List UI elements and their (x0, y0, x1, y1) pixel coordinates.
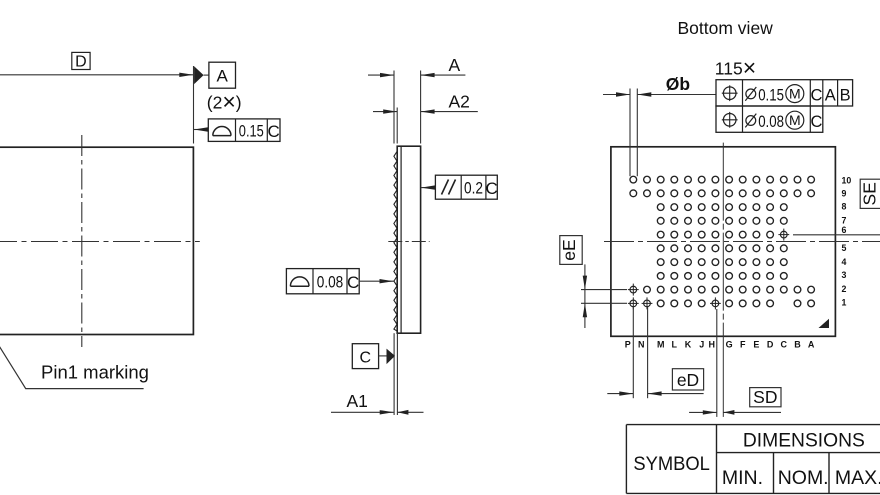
feature control frame: position 0.08 M C (716, 106, 823, 132)
dimension D extension line (193, 66, 195, 144)
bottom view horizontal centerline (604, 241, 880, 243)
svg-text:MAX.: MAX. (835, 467, 880, 489)
ball C6 position target (778, 229, 789, 241)
svg-text:H: H (709, 339, 716, 349)
svg-text:4: 4 (842, 257, 847, 267)
svg-text:P: P (625, 339, 631, 349)
dimension eD label box (672, 369, 703, 390)
svg-text:9: 9 (842, 189, 847, 199)
svg-text:A2: A2 (449, 91, 470, 111)
ball N1 position target (642, 297, 653, 309)
svg-text:A: A (808, 339, 815, 349)
ball row 4 (657, 259, 787, 266)
svg-text:6: 6 (842, 225, 847, 235)
pin 1 corner chamfer mark (819, 319, 830, 328)
dimensions table (626, 425, 880, 494)
dimension A2 line (373, 111, 397, 113)
seating plane lines (393, 333, 395, 415)
svg-text:MIN.: MIN. (722, 467, 763, 489)
svg-text:D: D (767, 339, 774, 349)
ball P2 position target (628, 284, 639, 296)
svg-text:C: C (347, 273, 359, 292)
svg-text:C: C (360, 349, 372, 366)
feature control frame: parallelism 0.2 C (435, 175, 497, 199)
dimension Ob extension lines (629, 89, 631, 177)
svg-text:DIMENSIONS: DIMENSIONS (743, 429, 865, 451)
feature control frame: position 0.15 M C A B (716, 80, 853, 106)
svg-text:0.15: 0.15 (758, 85, 784, 104)
dimension eE label box (560, 236, 582, 265)
svg-text:10: 10 (842, 175, 852, 185)
svg-text:C: C (267, 122, 279, 141)
extension lines (393, 71, 395, 144)
svg-text:A1: A1 (347, 391, 368, 411)
svg-text:N: N (638, 339, 645, 349)
row 6 reference line to SE (793, 234, 880, 236)
dimension eD extension lines (632, 307, 634, 398)
svg-text:D: D (75, 53, 87, 70)
svg-text:5: 5 (842, 243, 847, 253)
side view package body (397, 146, 420, 333)
svg-text:115×: 115× (715, 54, 756, 80)
dimension SD label box (750, 388, 781, 407)
side view substrate line (400, 146, 402, 333)
ball row 5 (657, 245, 787, 252)
datum C box (352, 344, 378, 369)
svg-text:F: F (740, 339, 746, 349)
svg-text:G: G (726, 339, 733, 349)
svg-text:C: C (781, 339, 788, 349)
datum A box (209, 62, 236, 88)
ball row 8 (657, 204, 787, 211)
svg-text:eD: eD (677, 370, 699, 390)
leader from frame to extension line (194, 129, 208, 131)
svg-text:B: B (840, 86, 851, 104)
datum A triangle (194, 66, 204, 84)
feature control frame: profile 0.08 C (286, 269, 359, 294)
svg-text:0.15: 0.15 (239, 122, 264, 140)
dimension A line (368, 74, 394, 76)
svg-text:A: A (217, 66, 229, 85)
datum C triangle (387, 349, 396, 365)
dimension eE lines (584, 264, 586, 328)
svg-text:C: C (811, 86, 823, 104)
svg-text:2: 2 (842, 284, 847, 294)
svg-text:8: 8 (842, 202, 847, 212)
ball P1 position target (628, 297, 639, 309)
feature control frame: profile 0.15 C (208, 119, 280, 141)
svg-text:eE: eE (559, 239, 579, 260)
svg-text:SE: SE (859, 182, 879, 205)
side view centerline (388, 241, 429, 243)
svg-text:A: A (449, 55, 461, 75)
dimension D line (0, 74, 193, 76)
svg-text:J: J (699, 339, 704, 349)
top view package body outline (0, 147, 193, 334)
ball row 9 (630, 190, 815, 197)
svg-text:1: 1 (842, 297, 847, 307)
ball row 2 (644, 286, 815, 293)
svg-text:M: M (789, 112, 801, 128)
dimension eD line (607, 393, 633, 395)
svg-text:E: E (753, 339, 759, 349)
dimension SE label box (860, 179, 880, 208)
side view solder balls profile (394, 152, 397, 332)
dimension D label box (72, 52, 90, 69)
ball row 3 (657, 273, 787, 280)
leader to body (421, 187, 435, 189)
svg-text:C: C (811, 113, 823, 131)
top view vertical centerline (81, 135, 83, 347)
svg-text:A: A (825, 86, 836, 104)
svg-text:Pin1 marking: Pin1 marking (41, 362, 149, 383)
svg-text:M: M (657, 339, 665, 349)
bottom view package outline (611, 147, 836, 336)
ball row 1 (657, 300, 814, 307)
svg-text:Øb: Øb (666, 74, 690, 94)
dimension SD line (689, 411, 717, 413)
column letter labels (625, 339, 815, 349)
ball row 10 (630, 176, 815, 183)
svg-text:Bottom view: Bottom view (678, 18, 774, 38)
dimension SD extension line (716, 309, 718, 417)
svg-text:3: 3 (842, 270, 847, 280)
top view horizontal centerline (0, 241, 200, 243)
svg-text:M: M (789, 86, 801, 102)
ball H1 position target (710, 297, 721, 309)
leader to seating plane (359, 280, 393, 282)
svg-text:0.2: 0.2 (464, 179, 483, 197)
ball row 7 (657, 217, 787, 224)
Pin1 marking leader (0, 335, 144, 389)
dimension A1 line (331, 411, 394, 413)
svg-text:0.08: 0.08 (317, 273, 344, 291)
svg-text:NOM.: NOM. (778, 467, 829, 489)
svg-text:B: B (794, 339, 801, 349)
svg-text:L: L (672, 339, 678, 349)
svg-text:K: K (685, 339, 692, 349)
dimension Ob line (603, 94, 630, 96)
svg-text:C: C (485, 179, 497, 198)
svg-text:SD: SD (753, 387, 777, 407)
svg-text:0.08: 0.08 (758, 112, 784, 131)
ball row 6 (657, 231, 773, 238)
svg-text:(2×): (2×) (207, 89, 242, 115)
row number labels (842, 175, 852, 307)
svg-text:SYMBOL: SYMBOL (633, 453, 710, 475)
bottom view vertical centerline (722, 143, 724, 336)
